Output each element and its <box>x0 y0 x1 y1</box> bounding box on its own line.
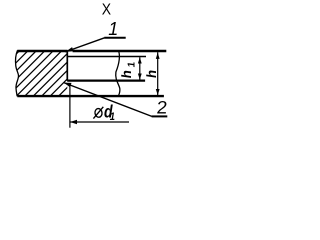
dimension d1: line <box>70 121 129 123</box>
break line (right wavy) <box>116 51 120 96</box>
bottom surface line <box>17 95 164 97</box>
dimension h1: arrow up <box>138 57 142 63</box>
svg-text:1: 1 <box>108 19 118 39</box>
dimension h: line <box>157 52 159 95</box>
dimension h: arrow down <box>156 89 160 95</box>
leader 2: arrow <box>64 83 72 88</box>
top surface line <box>17 50 166 52</box>
groove bottom face (vertical wall) <box>66 51 68 81</box>
dimension d1: label diameter symbol <box>93 107 103 119</box>
dimension d1: arrow left <box>70 120 77 124</box>
leader 1: line <box>65 38 104 52</box>
dimension h1: line <box>139 57 141 80</box>
leader 1: underline <box>104 37 125 39</box>
section hatching of plate <box>0 49 114 99</box>
leader 2: line <box>64 83 152 117</box>
leader 2: underline <box>152 115 168 117</box>
svg-text:1: 1 <box>110 111 115 123</box>
dimension d1: extension line <box>69 84 71 128</box>
groove upper edge <box>68 56 146 58</box>
dimension h: arrow up <box>156 53 160 59</box>
svg-text:2: 2 <box>156 97 168 117</box>
leader 1: arrow <box>65 47 73 52</box>
dimension h1: arrow down <box>138 74 142 80</box>
break line (left wavy edge of plate) <box>16 50 19 96</box>
svg-text:X: X <box>102 2 111 19</box>
groove lower edge <box>67 79 145 81</box>
